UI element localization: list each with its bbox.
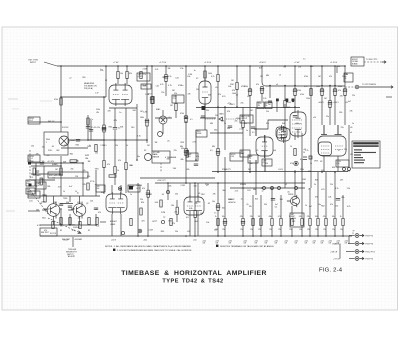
svg-text:1W: 1W [321,243,324,245]
capacitor C11 [201,116,205,118]
svg-text:0.1: 0.1 [190,119,193,121]
junction at 104,140 [103,139,105,141]
wire x295 up [294,66,296,113]
wire Q emitters [54,217,80,226]
svg-text:4.7k: 4.7k [72,225,76,227]
capacitor C23 [59,204,63,206]
svg-text:2N706: 2N706 [288,194,293,196]
svg-text:TIMEBASE & HORIZONTAL AMPLIFIE: TIMEBASE & HORIZONTAL AMPLIFIER [121,270,267,277]
svg-text:SWP: SWP [241,153,245,155]
svg-text:10k: 10k [222,208,225,210]
svg-text:47k: 47k [172,223,175,225]
svg-text:25k: 25k [234,121,237,123]
svg-text:R62: R62 [162,77,165,79]
multivib gate box [48,172,88,178]
junction at 295,172 [294,171,296,173]
svg-text:R62: R62 [70,153,73,155]
svg-text:MOUNT: MOUNT [352,59,358,61]
resistor R41 [291,219,293,226]
svg-text:25k: 25k [71,168,74,170]
svg-text:V1: V1 [105,80,107,82]
wire x88 cap leg [87,115,89,140]
wire y196 [28,195,100,197]
svg-text:1W: 1W [255,243,258,245]
svg-text:1n: 1n [181,85,183,87]
svg-text:x10: x10 [313,117,316,119]
svg-text:+7 kV: +7 kV [113,62,119,64]
svg-text:.05: .05 [161,194,164,196]
wire x302 mid [301,140,303,195]
svg-text:1.2k: 1.2k [263,98,266,100]
svg-text:1W: 1W [285,243,288,245]
svg-text:560: 560 [194,185,197,187]
resistor R33 [186,150,188,157]
dark test point near V8 [294,161,298,165]
capacitor C25 [94,208,98,210]
svg-text:2.2M: 2.2M [161,212,166,214]
tube V5 [106,192,127,214]
wire x302 tube leg [301,133,303,140]
svg-text:4n7: 4n7 [69,186,72,188]
svg-text:VR3: VR3 [241,86,245,88]
svg-text:VR3: VR3 [314,161,318,163]
wire x205 [204,66,206,130]
wire x285 mid [284,120,286,188]
junction at 295,85.5 [294,85,296,87]
wire y107 bus [196,107,300,109]
capacitor C9 [271,199,275,201]
svg-text:+1.5k: +1.5k [337,161,341,163]
svg-text:1W: 1W [329,243,332,245]
svg-text:LEVEL: LEVEL [197,133,202,135]
resistor R25 [321,89,323,96]
svg-text:V3: V3 [256,150,258,152]
tag v3 cathode [262,159,272,166]
svg-text:1W: 1W [203,243,206,245]
junction at 218,172 [217,171,219,173]
svg-text:25k: 25k [347,188,350,190]
svg-text:4x: 4x [345,76,347,78]
wire x152 [151,66,153,151]
svg-text:33k: 33k [206,110,209,112]
svg-text:OA81: OA81 [219,113,224,116]
junction at 218,107 [217,106,219,108]
wire shaft down [72,237,74,247]
resistor Q2 emitter [79,222,81,229]
svg-text:TO CRT PLATES: TO CRT PLATES [362,83,377,86]
resistor R48 [44,195,46,202]
svg-text:x3: x3 [276,84,278,86]
svg-text:S1 POS: S1 POS [50,233,57,235]
svg-text:330: 330 [76,160,79,162]
junction at 205,66 [204,65,206,67]
junction at 147,66 [146,65,148,67]
resistor R5 [117,72,119,79]
svg-text:6.8k: 6.8k [189,208,192,210]
svg-text:4.7k: 4.7k [58,186,62,188]
svg-text:1n: 1n [241,199,243,201]
junction at 137,160 [136,159,138,161]
svg-text:FIG.1: FIG.1 [29,158,33,160]
svg-text:47k: 47k [338,90,341,92]
svg-text:5k6: 5k6 [97,188,100,190]
svg-text:LINES: LINES [110,224,116,226]
wire elbow to V8 grid [254,120,288,129]
svg-text:1k: 1k [290,146,292,148]
svg-text:+300 MAX: +300 MAX [74,238,83,241]
resistor R21 [284,101,286,108]
svg-text:47k: 47k [330,204,333,206]
svg-text:22k: 22k [307,216,310,218]
wire x186 [185,66,187,183]
svg-text:PIN (V4-A): PIN (V4-A) [84,87,93,90]
svg-text:2.2M: 2.2M [142,68,147,70]
svg-text:47k: 47k [194,203,197,205]
wire x272 [271,188,273,236]
capacitor C19 [320,90,324,92]
junction at 115,140 [114,139,116,141]
left stub tag1 [28,117,40,124]
tag v5 left [96,185,105,192]
wire V3 bottom pins [256,160,265,172]
wire V5 cathode pins [112,214,121,236]
wire x295 mid [294,133,296,172]
junction at 335,236 [334,235,336,237]
svg-text:R62: R62 [201,194,204,196]
wire x138 low [137,183,139,236]
svg-text:4n7: 4n7 [247,96,250,98]
relay K1 [44,132,68,155]
wire y119 dashed2 [226,118,240,120]
wire x335 up [335,66,338,134]
tag ramp [186,153,198,161]
wire x250 [249,66,251,172]
svg-text:22k: 22k [308,171,311,173]
svg-text:x2: x2 [69,78,71,80]
svg-text:4.7k: 4.7k [278,216,281,218]
svg-text:1k: 1k [126,145,128,147]
junction at 237,107 [236,106,238,108]
svg-text:.05: .05 [350,127,353,129]
wire V6 cathode pins [190,217,198,236]
tube V9 [276,125,287,140]
svg-text:FIG PT5: FIG PT5 [366,259,374,261]
svg-text:R62: R62 [321,205,324,207]
wire x237 [236,66,238,107]
wire y163 left [31,162,83,164]
svg-text:4.7k: 4.7k [37,225,41,227]
wire x262 low stub [261,93,263,101]
resistor R29 [152,97,154,104]
svg-text:x2: x2 [279,75,281,77]
wire V3 top pin [255,128,257,136]
wire Q bases [44,208,74,210]
gas stabiliser [159,116,167,124]
svg-text:22k: 22k [174,150,177,152]
right x395 tick [386,96,392,98]
resistor x88 y183 [87,183,89,190]
junction at 330,85.5 [329,85,331,87]
svg-text:V2: V2 [196,78,198,80]
wire x281 low [280,195,282,236]
resistor R36 [242,219,244,226]
svg-text:68k: 68k [269,216,272,218]
svg-text:1W: 1W [337,243,340,245]
resistor R14 [217,75,219,82]
wire x148 low [147,183,149,236]
svg-text:RLA/1: RLA/1 [70,139,75,142]
callout to fig2 pt5 [351,57,364,66]
junction at 270,85.5 [269,85,271,87]
junction at 335,172 [334,171,336,173]
svg-text:15k: 15k [53,202,56,204]
svg-text:VR3: VR3 [180,142,184,144]
svg-text:220k: 220k [338,86,342,88]
left stub tag3 [28,191,40,198]
wire x243 mid [242,107,244,140]
svg-text:1M: 1M [298,67,301,69]
svg-text:22k: 22k [168,185,171,187]
svg-text:1k: 1k [305,205,307,207]
junction at 218,236 [217,235,219,237]
junction at 243,236 [242,235,244,237]
tube V8 [290,110,306,138]
svg-text:560k: 560k [140,117,144,119]
resistor R58 [70,160,77,162]
junction at 218,66 [217,65,219,67]
svg-text:47k: 47k [218,94,221,96]
junction at 186,183 [185,182,187,184]
wire x106 [105,66,107,97]
svg-text:DENOTES TERMINALS ON TAG BOARD: DENOTES TERMINALS ON TAG BOARD SET AT AN… [220,245,274,248]
resistor R46 [334,219,336,226]
wire y148 [61,147,88,149]
wire x310 low [309,188,311,236]
svg-text:1n: 1n [119,112,121,114]
svg-text:82k: 82k [47,186,50,188]
svg-text:C41: C41 [247,190,250,192]
junction at 88,140 [87,139,89,141]
svg-text:10k: 10k [228,86,231,88]
resistor R31 [194,211,196,218]
svg-text:330: 330 [229,199,232,201]
svg-text:1k: 1k [215,216,217,218]
svg-text:82k: 82k [259,68,262,70]
wire x118 anode [117,66,119,84]
junction at 345,66 [344,65,346,67]
tag holdoff [230,153,243,161]
wire y222 stub [100,221,106,223]
resistor R24 [310,89,312,96]
svg-text:1n: 1n [130,194,132,196]
diode OA81 [219,117,222,121]
svg-text:25k: 25k [175,194,178,196]
svg-text:2.2M: 2.2M [239,129,244,131]
wire x256 [255,108,257,136]
wire x311 mid [310,113,312,188]
junction at 237,66 [236,65,238,67]
wire x292 low [291,206,293,236]
capacitor C13 [194,164,198,166]
junction at 127,66 [126,65,128,67]
svg-text:22n: 22n [326,116,329,118]
svg-text:15k: 15k [31,145,34,147]
capacitor C3 [113,128,117,130]
svg-text:470: 470 [44,230,47,232]
svg-text:25k: 25k [161,92,164,94]
svg-text:R62: R62 [42,217,45,219]
wire y178 mid [140,177,215,179]
junction at 61,122 [60,121,62,123]
svg-text:2.2M: 2.2M [143,112,148,114]
junction at 243,188 [242,187,244,189]
junction at 250,66 [249,65,251,67]
svg-text:47k: 47k [142,188,145,190]
svg-text:82k: 82k [255,199,258,201]
wire x295 to Q3 [294,172,296,196]
wire bottom rail [40,235,352,237]
wire x127 anode [126,66,128,84]
capacitor C14 [145,121,149,123]
svg-text:x2: x2 [95,209,97,211]
svg-text:47k: 47k [266,123,269,125]
svg-text:100k: 100k [315,216,319,218]
svg-text:10k: 10k [206,222,209,224]
svg-text:.05: .05 [345,102,348,104]
svg-text:47k: 47k [196,156,199,158]
svg-text:25k: 25k [214,230,217,232]
capacitor C12 [164,77,168,79]
junction at 262,188 [261,187,263,189]
wire y122 left stub [28,121,61,123]
pulse out tag [128,185,140,192]
wire x345 [344,66,346,125]
wire x61 lower [60,163,62,225]
svg-text:1W: 1W [313,243,316,245]
wire x285 [284,86,286,121]
wire second rail right [262,66,345,86]
test point x163 y222 [161,220,164,223]
svg-text:SWP: SWP [27,189,31,191]
svg-text:1M: 1M [168,68,171,70]
svg-text:1n: 1n [352,123,354,125]
svg-text:INPUT: INPUT [30,62,37,64]
svg-text:82k: 82k [83,184,86,186]
scan artifacts left margin [8,98,18,100]
junction at 186,66 [185,65,187,67]
svg-text:1k: 1k [117,170,119,172]
wire x126 cathode [125,108,127,193]
svg-text:+2 kV: +2 kV [294,62,300,64]
svg-text:25k: 25k [266,111,269,113]
resistor x141 [140,72,142,79]
svg-text:Q2: Q2 [86,203,88,205]
junction at 61,97 [60,96,62,98]
callout trig2 [265,102,272,109]
svg-text:82k: 82k [187,169,190,171]
junction at 195,183 [194,182,196,184]
wire y225 trigger [40,224,96,226]
wire x243 low [242,188,244,236]
svg-text:47+47u: 47+47u [91,127,97,129]
svg-text:47k: 47k [240,216,243,218]
svg-text:15k: 15k [337,66,340,68]
svg-text:10k: 10k [187,76,190,78]
svg-text:82k: 82k [129,73,132,75]
wire x330 [329,86,331,126]
resistor R18 [242,121,244,128]
svg-text:2.2M: 2.2M [344,74,349,76]
left stub tag2 [28,155,40,162]
svg-text:1W: 1W [244,243,247,245]
svg-text:.05: .05 [235,94,238,96]
callout sawtooth [240,115,253,123]
svg-text:0.1: 0.1 [284,67,287,69]
resistor R28 [344,89,346,96]
svg-text:100k: 100k [316,86,320,88]
svg-text:(HEAT): (HEAT) [52,163,58,166]
resistor R20 [261,87,263,94]
resistor R52 [96,218,98,225]
svg-text:+450 V: +450 V [318,102,325,104]
svg-text:5.1k: 5.1k [168,76,171,78]
svg-text:1W: 1W [305,243,308,245]
svg-text:C41: C41 [64,144,67,146]
resistor R56 [170,219,172,226]
junction at 335,85.5 [334,85,336,87]
svg-text:x2: x2 [262,190,264,192]
svg-text:15k: 15k [180,68,183,70]
svg-text:0.1: 0.1 [73,209,76,211]
svg-text:V7: V7 [338,150,340,152]
svg-text:470k: 470k [297,90,301,92]
callout V4-2 [137,73,150,81]
svg-text:FOCUS: FOCUS [62,127,69,129]
junction at 281,236 [280,235,282,237]
svg-text:250: 250 [215,115,218,117]
tube V6 [184,195,204,217]
tag swp rev [26,188,35,194]
svg-text:10k: 10k [42,161,45,163]
svg-text:V8: V8 [320,161,322,163]
svg-text:SEE TEXT: SEE TEXT [41,232,49,234]
svg-text:4.7k: 4.7k [113,120,117,122]
junction at 261,236 [260,235,262,237]
wire x218 up [217,66,219,107]
svg-text:10k: 10k [101,192,104,194]
svg-text:C41: C41 [335,206,338,208]
junction at 61,225 [60,224,62,226]
svg-text:150k: 150k [287,102,291,104]
junction at 326,236 [325,235,327,237]
resistor R10 [175,104,177,111]
svg-text:10k: 10k [129,165,132,167]
callout trig1 [257,102,264,109]
wire x261 low [260,195,262,236]
svg-text:CF: CF [249,158,251,160]
junction at 272,188 [271,187,273,189]
capacitor C10 [336,199,340,201]
svg-text:560: 560 [347,170,350,172]
svg-text:12k: 12k [97,127,100,129]
wire Q collectors [54,196,80,204]
resistor R44 [317,219,319,226]
svg-text:47k: 47k [299,216,302,218]
junction at 83,163 [82,162,84,164]
svg-text:330: 330 [280,199,283,201]
swp cal box [290,213,304,227]
svg-text:+85: +85 [97,186,100,188]
